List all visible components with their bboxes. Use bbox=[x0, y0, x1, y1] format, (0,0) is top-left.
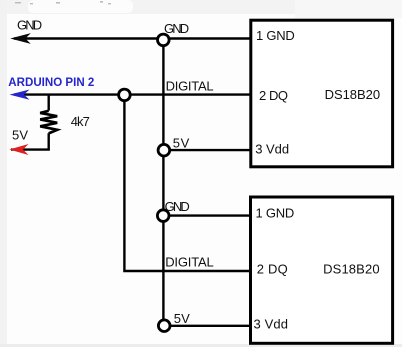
svg-text:5V: 5V bbox=[174, 311, 190, 326]
svg-text:1 GND: 1 GND bbox=[256, 28, 295, 43]
svg-text:DIGITAL: DIGITAL bbox=[166, 78, 214, 93]
svg-text:DS18B20: DS18B20 bbox=[325, 87, 381, 102]
svg-text:5V: 5V bbox=[12, 128, 28, 143]
svg-text:4k7: 4k7 bbox=[71, 114, 90, 129]
svg-text:DIGITAL: DIGITAL bbox=[165, 254, 214, 269]
svg-text:2 DQ: 2 DQ bbox=[257, 262, 288, 277]
svg-text:GND: GND bbox=[164, 21, 189, 36]
svg-text:3 Vdd: 3 Vdd bbox=[255, 141, 289, 156]
svg-text:1 GND: 1 GND bbox=[256, 206, 295, 221]
svg-text:GND: GND bbox=[17, 18, 42, 33]
svg-text:3 Vdd: 3 Vdd bbox=[254, 317, 289, 332]
svg-text:DS18B20: DS18B20 bbox=[323, 262, 380, 277]
svg-text:GND: GND bbox=[165, 199, 190, 214]
svg-text:5V: 5V bbox=[173, 135, 190, 150]
svg-text:ARDUINO PIN 2: ARDUINO PIN 2 bbox=[8, 75, 94, 89]
svg-text:2 DQ: 2 DQ bbox=[259, 88, 288, 103]
